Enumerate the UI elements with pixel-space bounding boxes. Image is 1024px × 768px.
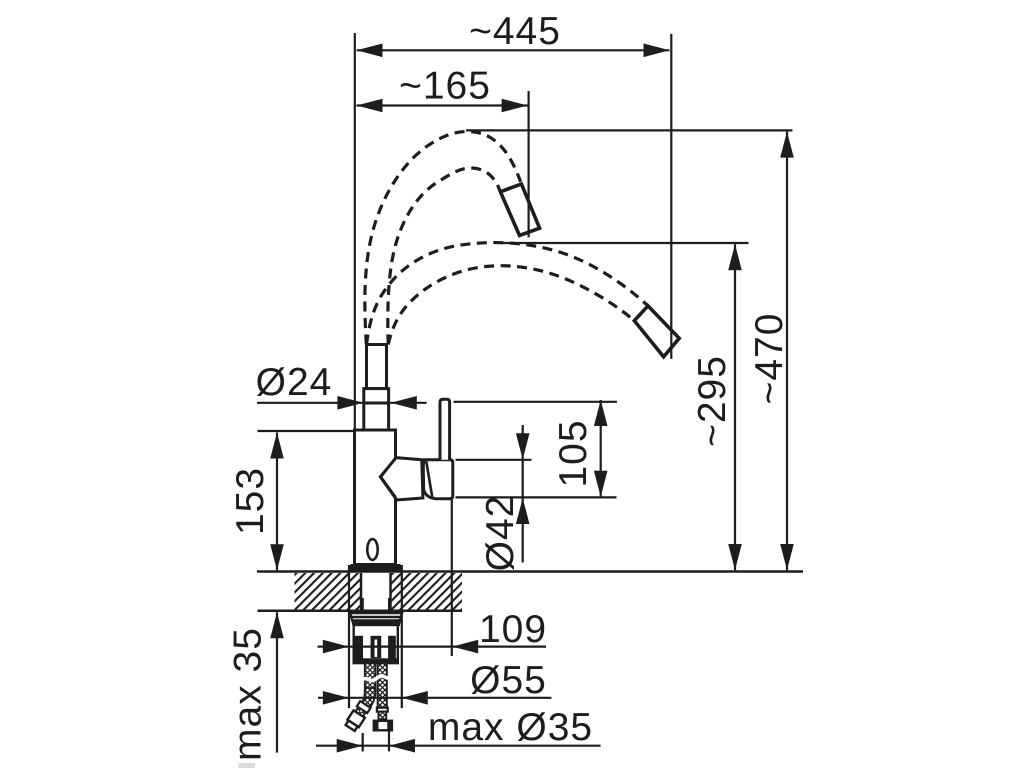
dimension Ø42 line [522, 425, 524, 563]
arrowheads [270, 44, 794, 753]
hatched countertop section left block [295, 573, 361, 610]
dimension 105 line [600, 400, 602, 497]
shank through countertop left wall [360, 573, 363, 611]
dimension 105 extension line top (lever top) [454, 401, 618, 403]
svg-text:153: 153 [229, 467, 272, 535]
faucet spout tube upper [355, 345, 396, 565]
svg-text:Ø24: Ø24 [256, 361, 333, 404]
dimension 105 extension line bottom (housing bottom) [456, 496, 617, 498]
braided hose left [365, 663, 376, 695]
dimension 109 extension line right [451, 500, 453, 657]
dimension texts [227, 10, 792, 761]
mounting bracket box [354, 625, 398, 663]
dimension ~445 extension line left [354, 33, 356, 431]
faucet spout collar [364, 389, 389, 431]
braided hose right [378, 663, 387, 707]
dimension 109 line [318, 645, 547, 647]
dimension ~165 extension line right [527, 91, 529, 237]
countertop top surface line [257, 570, 803, 573]
dimension Ø55 extension line left [348, 565, 350, 708]
dimension max Ø35 extension line right [388, 731, 390, 751]
shank through countertop right wall [389, 573, 392, 611]
countertop bottom surface line [258, 609, 463, 612]
handle lever [440, 399, 450, 460]
dimension ~445 line [357, 49, 670, 51]
dimension Ø55 line [318, 697, 551, 699]
spray head position 2 [634, 306, 679, 357]
base flange [348, 565, 403, 572]
dimension ~470 line [786, 132, 788, 571]
dimension max 35 line vertical [276, 612, 278, 752]
cropped faint glyph fragment at bottom edge [239, 763, 256, 768]
mounting stud right [388, 598, 390, 637]
svg-text:max 35: max 35 [227, 627, 270, 761]
svg-text:105: 105 [552, 419, 595, 487]
dimension max Ø35 extension line left [362, 733, 364, 752]
flexible hose position 1 outer dashed curve [365, 132, 521, 345]
spray head position 1 [500, 184, 539, 236]
dimension ~295 line [734, 244, 736, 570]
dimension Ø55 extension line right [401, 565, 403, 708]
dimension ~165 line [357, 104, 528, 106]
svg-text:Ø42: Ø42 [479, 495, 522, 572]
mounting stud left [362, 598, 364, 637]
svg-text:Ø55: Ø55 [470, 659, 547, 702]
dimension max Ø35 line [316, 745, 601, 747]
angled fitting left [344, 701, 371, 732]
svg-text:~470: ~470 [748, 313, 791, 405]
reference line top of low spout for ~295 [503, 242, 749, 244]
dimension 153 line [276, 433, 278, 571]
dimension Ø42 extension line top (housing top) [456, 459, 532, 461]
reference line top of high spout for ~470 [466, 129, 793, 131]
svg-text:~295: ~295 [691, 355, 734, 447]
washer stack under countertop [350, 613, 402, 625]
svg-text:~445: ~445 [469, 10, 561, 53]
svg-text:max Ø35: max Ø35 [428, 706, 593, 749]
flexible hose position 1 inner dashed curve [388, 168, 500, 345]
mixer cartridge housing [423, 460, 453, 499]
hose left bend to fitting [360, 688, 376, 708]
straight fitting right [374, 708, 392, 731]
hatched countertop section right block [392, 573, 463, 610]
flexible hose position 2 outer dashed curve [367, 243, 649, 345]
handle cone on body [380, 399, 453, 500]
svg-text:~165: ~165 [399, 65, 491, 108]
faucet body column [355, 430, 396, 565]
dimension Ø24 line [257, 402, 427, 404]
dimension ~445 extension line right [670, 34, 672, 359]
flexible hose position 2 inner dashed curve [388, 266, 634, 345]
dimension 153 extension line top [258, 430, 355, 432]
logo 0 on body [367, 539, 377, 560]
hose break squiggle [361, 676, 390, 681]
svg-text:109: 109 [479, 608, 547, 651]
